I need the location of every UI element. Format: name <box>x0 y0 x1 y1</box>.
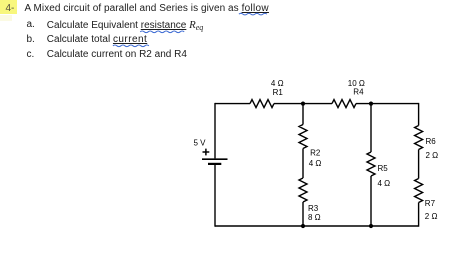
faint highlight residue <box>0 15 12 21</box>
resistor R7 (2 ohm) zigzag <box>415 179 423 203</box>
wire: R5 down to bottom wire <box>370 176 372 226</box>
wire: node B down to R5 <box>370 104 372 152</box>
node B junction dot (top of R5 branch) <box>369 102 373 106</box>
node C junction dot (bottom of R3 branch) <box>301 224 305 228</box>
battery V1 positive long plate <box>202 158 228 160</box>
wavy underline under "follow" <box>239 13 267 15</box>
resistor R2 (4 ohm) zigzag <box>299 125 307 149</box>
node A junction dot (top of R2 branch) <box>301 102 305 106</box>
svg-text:R6: R6 <box>426 137 437 146</box>
item c <box>27 49 35 61</box>
item a <box>27 19 35 31</box>
wire: between R2 and R3 <box>302 149 304 179</box>
wire: between R1 and node A <box>274 103 332 105</box>
svg-text:R4: R4 <box>353 88 364 97</box>
battery V1 negative short plate <box>208 163 221 165</box>
wire: top-left horizontal segment <box>215 103 250 105</box>
wire: between R4 and top-right corner <box>356 103 419 105</box>
svg-text:R1: R1 <box>273 88 284 97</box>
svg-text:R3: R3 <box>308 204 319 213</box>
battery plus sign <box>203 149 210 156</box>
wire: bottom horizontal <box>215 225 419 227</box>
svg-text:5 V: 5 V <box>194 139 207 148</box>
problem number 4- <box>6 3 15 15</box>
svg-text:R2: R2 <box>310 148 321 157</box>
resistor R1 (4 ohm) zigzag <box>250 100 274 108</box>
wire: left vertical from top wire down to battery + plate <box>214 103 216 158</box>
item b <box>27 34 35 46</box>
wire: left vertical from battery - plate down to bottom wire <box>214 165 216 227</box>
svg-text:4 Ω: 4 Ω <box>309 159 322 168</box>
svg-text:2 Ω: 2 Ω <box>426 151 439 160</box>
svg-text:R5: R5 <box>378 164 389 173</box>
wire: R7 down to bottom wire <box>418 203 420 227</box>
wavy underline under "current" <box>113 45 149 47</box>
resistor R5 (4 ohm) zigzag <box>367 152 375 176</box>
resistor R4 (10 ohm) zigzag <box>332 100 356 108</box>
svg-text:4 Ω: 4 Ω <box>378 179 391 188</box>
wavy underline under "resistance" <box>140 31 184 33</box>
svg-text:R7: R7 <box>425 199 436 208</box>
svg-text:2 Ω: 2 Ω <box>425 212 438 221</box>
svg-text:8 Ω: 8 Ω <box>308 213 321 222</box>
yellow highlight behind "4-" <box>0 0 17 14</box>
node D junction dot (bottom of R5 branch) <box>369 224 373 228</box>
wire: R3 down to bottom wire <box>302 202 304 226</box>
line 1: problem statement <box>25 3 269 15</box>
wire: node A down to R2 <box>302 104 304 125</box>
wire: right vertical from top-right corner to R6 <box>418 103 420 126</box>
resistor R3 (8 ohm) zigzag <box>299 178 307 202</box>
wire: between R6 and R7 <box>418 150 420 179</box>
resistor R6 (2 ohm) zigzag <box>415 126 423 150</box>
